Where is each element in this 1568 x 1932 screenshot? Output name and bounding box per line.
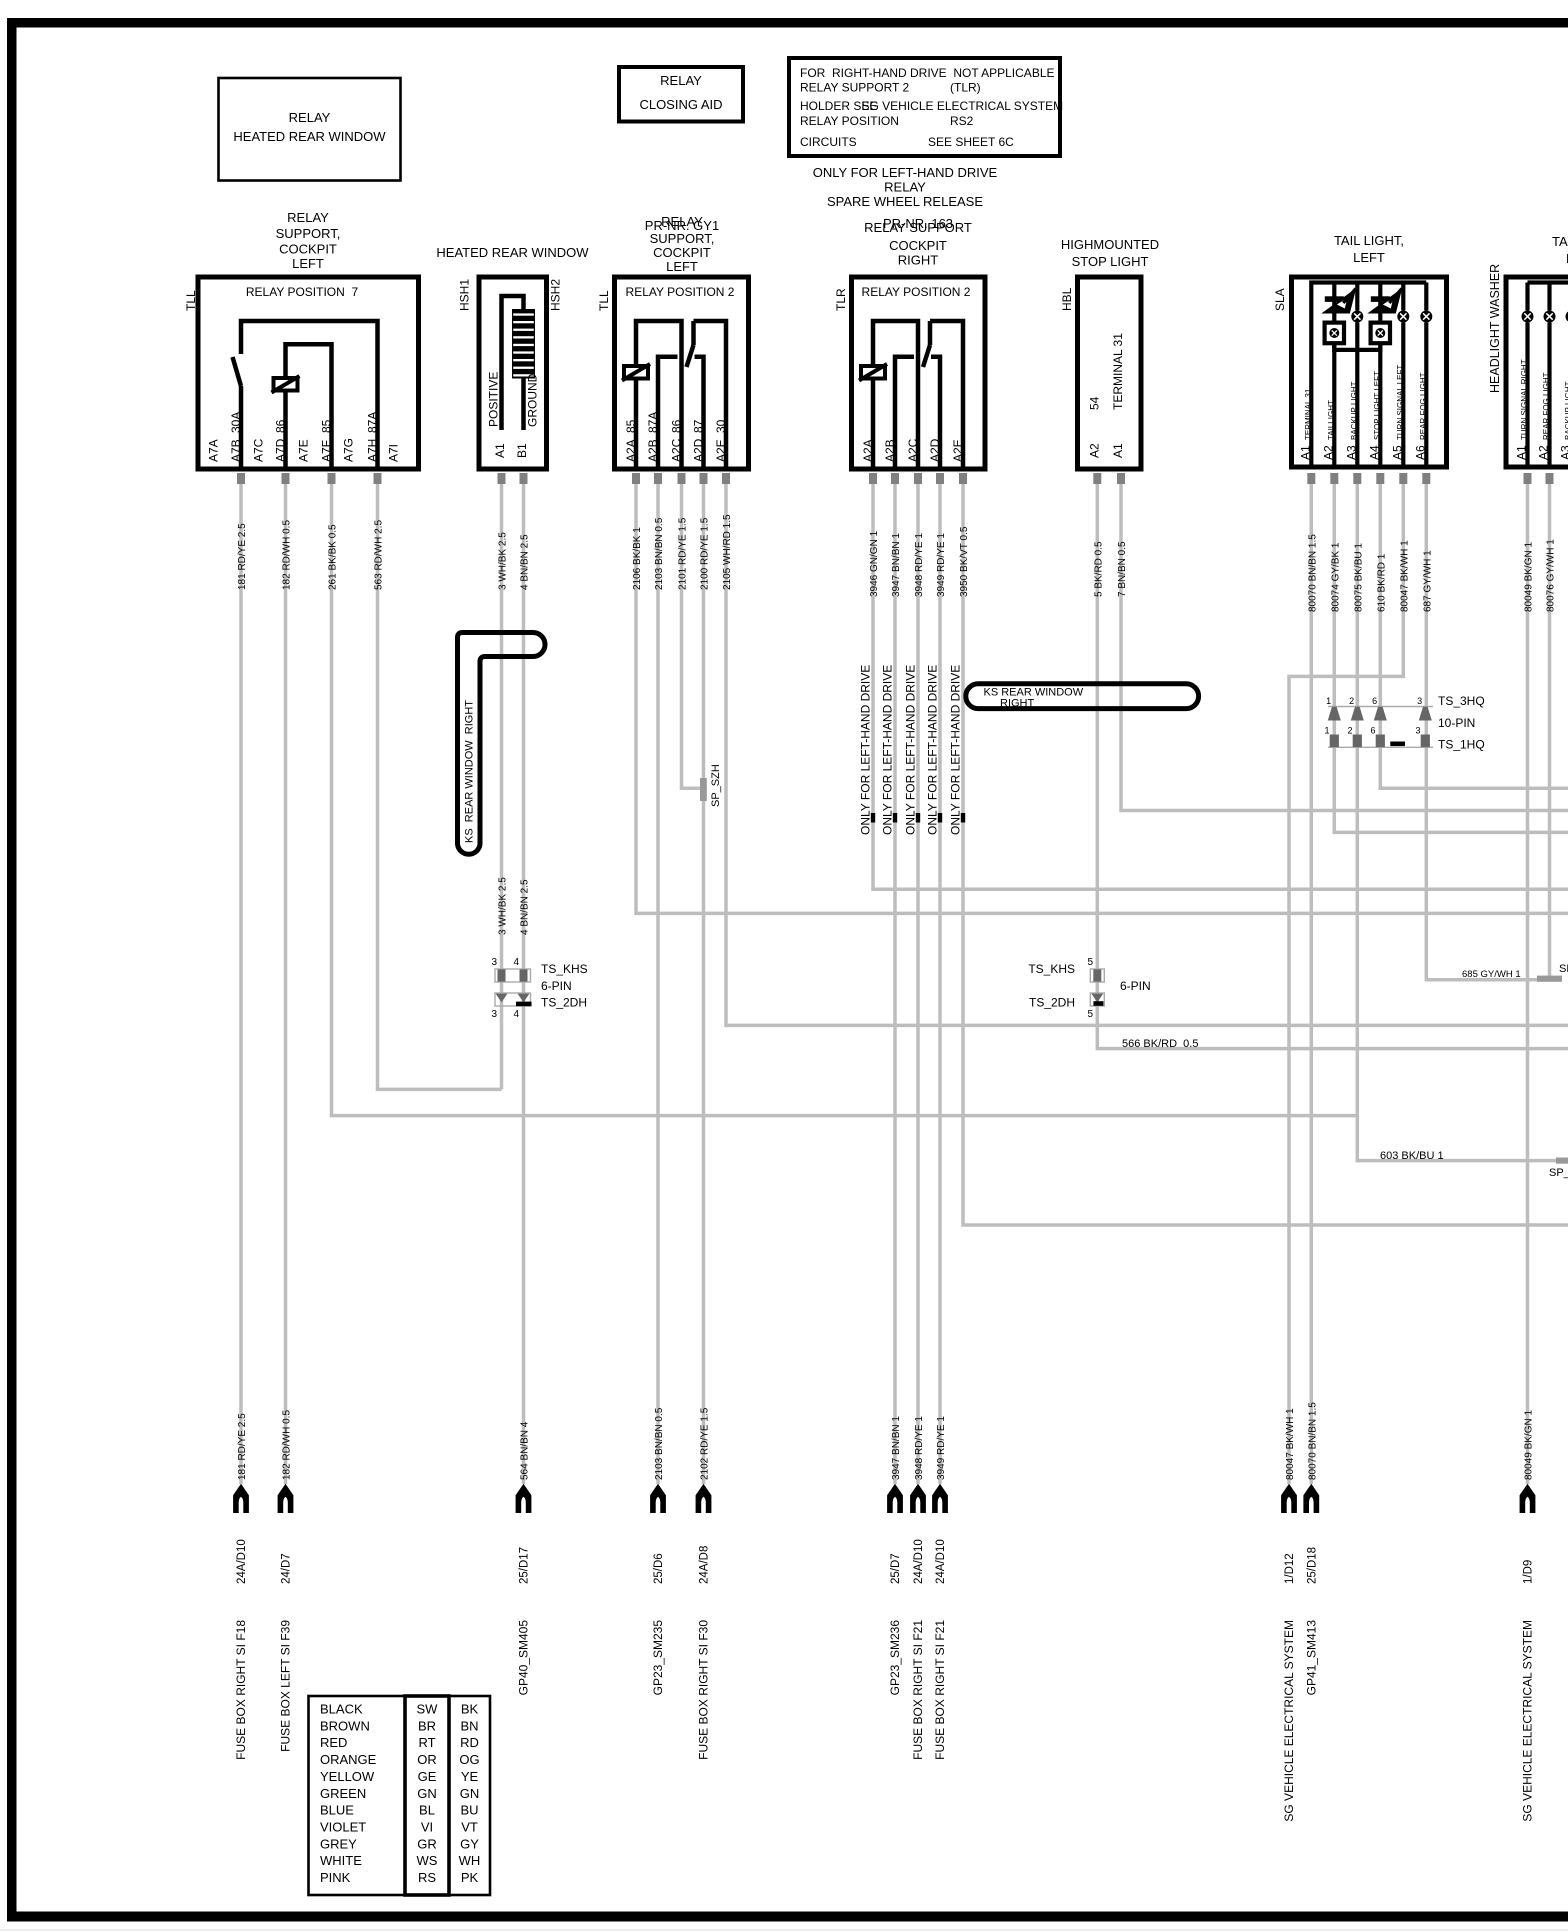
svg-text:687 GY/WH 1: 687 GY/WH 1 xyxy=(1422,550,1433,612)
svg-text:85: 85 xyxy=(320,419,334,433)
component box: relay support cockpit left TLL, RELAY POSITION 7 xyxy=(184,210,419,469)
box: RELAY HEATED REAR WINDOW (top-left annotation) xyxy=(219,78,401,181)
svg-text:1: 1 xyxy=(1324,726,1329,736)
svg-text:80049 BK/GN 1: 80049 BK/GN 1 xyxy=(1524,1410,1535,1480)
svg-text:STOP LIGHT: STOP LIGHT xyxy=(1072,254,1149,269)
svg-text:3949 RD/YE 1: 3949 RD/YE 1 xyxy=(936,533,947,597)
svg-text:564 BN/BN 4: 564 BN/BN 4 xyxy=(520,1421,531,1480)
svg-text:BACKUP LIGHT: BACKUP LIGHT xyxy=(1564,381,1568,440)
note: only for left-hand drive relay spare wheel release xyxy=(813,165,998,209)
svg-text:24A/D10: 24A/D10 xyxy=(913,1539,925,1584)
svg-text:BLUE: BLUE xyxy=(320,1803,354,1818)
svg-text:ONLY FOR LEFT-HAND DRIVE: ONLY FOR LEFT-HAND DRIVE xyxy=(904,665,918,835)
svg-text:LEFT: LEFT xyxy=(666,259,698,274)
svg-text:A2: A2 xyxy=(1088,443,1102,458)
box: RELAY CLOSING AID (top-center annotation) xyxy=(619,67,743,122)
svg-text:BLACK: BLACK xyxy=(320,1702,363,1717)
relay K2 coil: pin A2A(85) coil loop to pin A2C(86) xyxy=(622,321,682,470)
component box: relay support cockpit left TLL, RELAY POSITION 2 xyxy=(597,214,749,469)
heater element R1: pin A1 positive loop, resistor, pin B1 ground xyxy=(502,296,524,430)
wire 80075 BK/BU / 603 BK/BU: SLA A3 down to splice xyxy=(1357,484,1560,1161)
wire 4 BN/BN / 564 BN/BN: HSH B1 through TS connector to GP40 xyxy=(522,484,526,1484)
harness outlet arrow, wire 181 to FUSE BOX RIGHT SI F18 xyxy=(233,1413,249,1760)
svg-text:COCKPIT: COCKPIT xyxy=(279,242,337,257)
svg-text:SP_: SP_ xyxy=(1559,963,1568,975)
svg-text:A7C: A7C xyxy=(252,438,266,462)
svg-text:GY: GY xyxy=(460,1836,479,1851)
svg-text:24/D7: 24/D7 xyxy=(281,1553,293,1584)
svg-text:5: 5 xyxy=(1087,957,1093,968)
box4 pin labels A2A..A2E xyxy=(861,438,965,462)
svg-text:A3: A3 xyxy=(1559,445,1568,460)
svg-text:RELAY: RELAY xyxy=(660,73,702,88)
svg-text:(TLR): (TLR) xyxy=(950,81,981,95)
harness outlet arrow, wire 80049 to SG VEHICLE ELECTRICAL SYSTEM xyxy=(1520,1410,1536,1822)
svg-text:25/D18: 25/D18 xyxy=(1307,1547,1319,1584)
svg-text:30A: 30A xyxy=(229,412,243,433)
svg-text:FUSE BOX RIGHT SI F18: FUSE BOX RIGHT SI F18 xyxy=(234,1620,248,1760)
svg-text:87: 87 xyxy=(692,419,706,433)
svg-text:10-PIN: 10-PIN xyxy=(1438,716,1475,730)
svg-text:CLOSING AID: CLOSING AID xyxy=(639,97,722,112)
wire number labels below component boxes xyxy=(237,514,1557,612)
svg-text:A2C: A2C xyxy=(670,438,684,462)
svg-text:BN: BN xyxy=(460,1718,478,1733)
svg-text:A2A: A2A xyxy=(624,439,638,462)
svg-text:30: 30 xyxy=(714,419,728,433)
svg-text:2101 RD/YE 1.5: 2101 RD/YE 1.5 xyxy=(678,517,689,590)
svg-text:SLA: SLA xyxy=(1273,288,1287,311)
backup light lamp (cut by sheet edge) xyxy=(1566,283,1568,468)
wire 182 RD/WH: box1 A7D to fuse box left xyxy=(284,484,288,1484)
wire 2105 WH/RD: box3 A2E elbow right at y1025 xyxy=(726,484,1568,1025)
rear fog light lamp E6 xyxy=(1420,283,1432,468)
svg-text:24A/D10: 24A/D10 xyxy=(935,1539,947,1584)
svg-text:3 WH/BK 2.5: 3 WH/BK 2.5 xyxy=(498,877,509,935)
svg-text:TS_2DH: TS_2DH xyxy=(541,996,587,1010)
resistor element hatched body xyxy=(512,309,535,379)
svg-text:A7G: A7G xyxy=(342,438,356,462)
connector outline KS REAR WINDOW RIGHT (horizontal stadium) xyxy=(966,684,1199,710)
svg-text:261 BK/BK 0.5: 261 BK/BK 0.5 xyxy=(328,524,339,590)
svg-text:VT: VT xyxy=(461,1819,478,1834)
svg-text:GP41_SM413: GP41_SM413 xyxy=(1305,1620,1319,1696)
harness outlet arrow, wire 564 to GP40_SM405 xyxy=(516,1421,532,1695)
svg-text:A7B: A7B xyxy=(229,439,243,462)
svg-text:VI: VI xyxy=(421,1819,433,1834)
component box: highmounted stop light HBL xyxy=(1060,237,1159,469)
svg-text:2105 WH/RD 1.5: 2105 WH/RD 1.5 xyxy=(722,514,733,590)
svg-text:25/D17: 25/D17 xyxy=(519,1547,531,1584)
svg-text:FOR RIGHT-HAND DRIVE NOT APP: FOR RIGHT-HAND DRIVE NOT APPLICABLE xyxy=(800,66,1055,80)
svg-text:181 RD/YE 2.5: 181 RD/YE 2.5 xyxy=(237,1413,248,1480)
svg-text:A7H: A7H xyxy=(366,439,380,462)
wire 7 BN/BN: HBL A1 elbow right at y810 xyxy=(1121,484,1568,811)
svg-text:A1: A1 xyxy=(493,443,507,458)
svg-text:HBL: HBL xyxy=(1060,287,1074,311)
svg-text:SG VEHICLE ELECTRICAL SYSTEM: SG VEHICLE ELECTRICAL SYSTEM xyxy=(862,99,1064,113)
svg-text:182 RD/WH 0.5: 182 RD/WH 0.5 xyxy=(282,1410,293,1480)
svg-text:A2B: A2B xyxy=(646,439,660,462)
svg-text:A2D: A2D xyxy=(692,438,706,462)
svg-text:24A/D10: 24A/D10 xyxy=(236,1539,248,1584)
svg-text:SW: SW xyxy=(417,1702,439,1717)
wire 3950 BK/VT: box4 A2E elbow right at y1225 xyxy=(963,484,1568,1225)
svg-text:RELAY: RELAY xyxy=(287,210,329,225)
svg-text:VIOLET: VIOLET xyxy=(320,1819,366,1834)
svg-text:ONLY FOR LEFT-HAND DRIVE: ONLY FOR LEFT-HAND DRIVE xyxy=(813,165,998,180)
svg-text:54: 54 xyxy=(1088,396,1102,410)
svg-text:603 BK/BU 1: 603 BK/BU 1 xyxy=(1380,1150,1444,1162)
tail light right pin labels xyxy=(1515,359,1568,460)
svg-text:BR: BR xyxy=(418,1718,436,1733)
svg-text:3947 BN/BN 1: 3947 BN/BN 1 xyxy=(891,533,902,597)
svg-text:2: 2 xyxy=(1347,726,1352,736)
wire 80049 BK/GN: tail light right A1 to SG system xyxy=(1526,484,1530,1484)
splice on wire 685 GY/WH xyxy=(1537,963,1568,982)
svg-text:RD: RD xyxy=(460,1735,479,1750)
component box: tail light left SLA xyxy=(1273,233,1447,467)
relay K3 coil: pin A2A coil loop to pin A2C xyxy=(859,321,918,470)
svg-text:A7F: A7F xyxy=(320,440,334,462)
wire 5 BK/RD / 566 BK/RD: HBL A2 through TS connector elbow right xyxy=(1097,484,1568,1049)
svg-text:LEFT: LEFT xyxy=(292,256,324,271)
svg-text:RELAY SUPPORT: RELAY SUPPORT xyxy=(864,220,972,235)
svg-text:YE: YE xyxy=(461,1769,479,1784)
svg-text:RELAY SUPPORT 2: RELAY SUPPORT 2 xyxy=(800,81,909,95)
tail light right internal bus xyxy=(1528,280,1568,284)
svg-text:2103 BN/BN 0.5: 2103 BN/BN 0.5 xyxy=(654,517,665,590)
svg-text:GROUND: GROUND xyxy=(526,373,540,427)
svg-text:3: 3 xyxy=(491,957,497,968)
svg-text:RELAY: RELAY xyxy=(884,180,926,195)
wire 80074 GY/BK: SLA A2 elbow right at y832 xyxy=(1334,484,1568,832)
svg-text:RS2: RS2 xyxy=(950,114,974,128)
svg-text:TERMINAL 31: TERMINAL 31 xyxy=(1111,333,1125,410)
box: right-hand-drive info table xyxy=(789,58,1063,156)
relay K1 coil: pin A7D(86) coil to pin A7F(85) xyxy=(272,344,332,469)
svg-text:80047 BK/WH 1: 80047 BK/WH 1 xyxy=(1399,540,1410,612)
option dividers and ONLY FOR LEFT-HAND DRIVE notes xyxy=(859,665,966,835)
connector pads at box pins xyxy=(237,473,1554,484)
svg-text:WHITE: WHITE xyxy=(320,1853,362,1868)
svg-text:TLR: TLR xyxy=(834,288,848,311)
svg-text:HSH1: HSH1 xyxy=(458,279,472,311)
wire 80047 BK/WH: SLA A5 elbow left then down to SG system xyxy=(1289,484,1403,1484)
svg-text:SUPPORT,: SUPPORT, xyxy=(276,226,341,241)
wire 2103 BN/BN: box3 A2B to GP23 xyxy=(656,484,660,1484)
wire 2101 RD/YE: box3 A2C to splice SP_SZH xyxy=(682,484,703,788)
svg-text:2106 BK/BK 1: 2106 BK/BK 1 xyxy=(632,527,643,590)
svg-text:ONLY FOR LEFT-HAND DRIVE: ONLY FOR LEFT-HAND DRIVE xyxy=(949,665,963,835)
svg-text:86: 86 xyxy=(670,419,684,433)
svg-text:A2C: A2C xyxy=(906,438,920,462)
svg-text:5 BK/RD 0.5: 5 BK/RD 0.5 xyxy=(1093,541,1104,597)
connector TS_3HQ / TS_1HQ 10-PIN xyxy=(1324,694,1484,752)
svg-text:1/D12: 1/D12 xyxy=(1284,1553,1296,1584)
box1 pin labels A7A..A7I and terminal numbers xyxy=(207,412,401,462)
svg-text:POSITIVE: POSITIVE xyxy=(487,372,501,427)
harness outlet arrow, wire 182 to FUSE BOX LEFT SI F39 xyxy=(278,1410,294,1752)
connector TS_KHS / TS_2DH pin 5 xyxy=(1028,957,1150,1020)
svg-text:24A/D8: 24A/D8 xyxy=(699,1546,711,1584)
wire 181 RD/YE: box1 A7B to fuse box right xyxy=(239,484,243,1484)
svg-text:87A: 87A xyxy=(366,412,380,433)
svg-text:ONLY FOR LEFT-HAND DRIVE: ONLY FOR LEFT-HAND DRIVE xyxy=(859,665,873,835)
svg-text:HEATED REAR WINDOW: HEATED REAR WINDOW xyxy=(436,245,589,260)
svg-text:GP40_SM405: GP40_SM405 xyxy=(517,1620,531,1696)
relay K2 changeover: common A2E(30), blade, contacts 87A(A2B) 87(A2D) xyxy=(658,321,726,470)
wire 2100/2102 RD/YE: box3 A2D through splice to fuse box xyxy=(702,484,706,1484)
svg-text:RELAY POSITION 2: RELAY POSITION 2 xyxy=(626,285,735,299)
svg-text:RS: RS xyxy=(418,1870,436,1885)
turn signal right lamp xyxy=(1522,283,1534,468)
svg-text:80047 BK/WH 1: 80047 BK/WH 1 xyxy=(1285,1408,1296,1480)
component box: tail light right (cut by sheet edge) xyxy=(1506,234,1568,467)
svg-text:OR: OR xyxy=(417,1752,437,1767)
svg-text:A2E: A2E xyxy=(714,439,728,462)
svg-text:PK: PK xyxy=(461,1870,479,1885)
wire 261 BK/BK: box1 A7F elbow right at y1115 xyxy=(332,484,1358,1116)
svg-text:HIGHMOUNTED: HIGHMOUNTED xyxy=(1061,237,1159,252)
svg-text:GR: GR xyxy=(417,1836,437,1851)
svg-text:ORANGE: ORANGE xyxy=(320,1752,377,1767)
relay K3 changeover: common A2E, blade, contacts A2B A2D xyxy=(895,321,963,470)
SLA pin labels A1..A6 with functions xyxy=(1298,365,1428,460)
svg-text:TLL: TLL xyxy=(597,290,611,311)
svg-text:SG VEHICLE ELECTRICAL SYSTEM: SG VEHICLE ELECTRICAL SYSTEM xyxy=(1521,1620,1535,1822)
svg-text:SG VEHICLE ELECTRICAL SYSTEM: SG VEHICLE ELECTRICAL SYSTEM xyxy=(1282,1620,1296,1822)
svg-text:85: 85 xyxy=(624,419,638,433)
svg-text:A1: A1 xyxy=(1298,445,1312,460)
svg-text:A2: A2 xyxy=(1321,445,1335,460)
svg-text:SEE SHEET 6C: SEE SHEET 6C xyxy=(928,135,1014,149)
harness outlet arrow, wire 3949 to FUSE BOX RIGHT SI F21 xyxy=(932,1416,948,1760)
svg-text:TS_KHS: TS_KHS xyxy=(1028,962,1075,976)
svg-text:A7I: A7I xyxy=(387,444,401,462)
svg-text:KS REAR WINDOW RIGHT: KS REAR WINDOW RIGHT xyxy=(464,700,476,843)
svg-text:RELAY: RELAY xyxy=(289,110,331,125)
svg-text:TS_3HQ: TS_3HQ xyxy=(1438,694,1485,708)
svg-text:RELAY POSITION: RELAY POSITION xyxy=(800,114,899,128)
svg-text:25/D7: 25/D7 xyxy=(890,1553,902,1584)
svg-text:A2D: A2D xyxy=(928,438,942,462)
svg-text:BROWN: BROWN xyxy=(320,1718,370,1733)
svg-text:A1: A1 xyxy=(1111,443,1125,458)
svg-text:WS: WS xyxy=(417,1853,438,1868)
svg-text:A2E: A2E xyxy=(951,439,965,462)
svg-text:A2B: A2B xyxy=(883,439,897,462)
wire 610 BK/RD: SLA A4 elbow right at y788 xyxy=(1380,484,1568,788)
SLA internal bus terminal 31 xyxy=(1311,283,1426,468)
svg-text:3: 3 xyxy=(1415,726,1420,736)
wire 3947 BN/BN: box4 A2B to GP23_SM236 xyxy=(893,484,897,1484)
svg-text:SUPPORT,: SUPPORT, xyxy=(650,231,715,246)
svg-text:HEATED REAR WINDOW: HEATED REAR WINDOW xyxy=(233,129,386,144)
svg-text:TS_1HQ: TS_1HQ xyxy=(1438,738,1485,752)
svg-text:GP23_SM236: GP23_SM236 xyxy=(888,1620,902,1696)
svg-text:TERMINAL 31: TERMINAL 31 xyxy=(1304,388,1313,440)
svg-text:TLL: TLL xyxy=(184,290,198,311)
svg-text:GREEN: GREEN xyxy=(320,1786,366,1801)
backup light lamp E3 xyxy=(1351,283,1363,468)
svg-text:GREY: GREY xyxy=(320,1836,357,1851)
svg-text:GN: GN xyxy=(417,1786,437,1801)
svg-text:A2: A2 xyxy=(1537,445,1551,460)
svg-text:FUSE BOX RIGHT SI F21: FUSE BOX RIGHT SI F21 xyxy=(911,1620,925,1760)
svg-text:6: 6 xyxy=(1372,696,1377,706)
svg-text:3: 3 xyxy=(1417,696,1422,706)
svg-text:25/D6: 25/D6 xyxy=(653,1553,665,1584)
svg-text:TAILLIGHT: TAILLIGHT xyxy=(1327,400,1336,440)
harness outlet arrow, wire 2102 to FUSE BOX RIGHT SI F30 xyxy=(696,1407,712,1760)
svg-text:RIGHT: RIGHT xyxy=(1000,698,1035,710)
svg-text:2102 RD/YE 1.5: 2102 RD/YE 1.5 xyxy=(700,1407,711,1480)
svg-text:A7A: A7A xyxy=(207,439,221,462)
wire 3 WH/BK: HSH A1 to TS_KHS pin3 and down to U xyxy=(500,484,504,1089)
wire 3946 GN/GN: box4 A2A elbow right at y889 xyxy=(873,484,1568,889)
svg-text:181 RD/YE 2.5: 181 RD/YE 2.5 xyxy=(237,523,248,590)
svg-text:WH: WH xyxy=(459,1853,481,1868)
harness outlet arrow, wire 3948 to FUSE BOX RIGHT SI F21 xyxy=(910,1416,926,1760)
svg-text:FUSE BOX LEFT SI F39: FUSE BOX LEFT SI F39 xyxy=(279,1620,293,1752)
svg-text:CIRCUITS: CIRCUITS xyxy=(800,135,857,149)
wire 80076 GY/WH: tail light right A2 down to splice xyxy=(1548,484,1552,977)
repeated labels 3 WH/BK and 4 BN/BN above TS_KHS xyxy=(498,877,531,935)
svg-text:7 BN/BN 0.5: 7 BN/BN 0.5 xyxy=(1117,541,1128,597)
svg-text:REAR FOG LIGHT: REAR FOG LIGHT xyxy=(1419,372,1428,440)
svg-text:YELLOW: YELLOW xyxy=(320,1769,375,1784)
svg-text:3946 GN/GN 1: 3946 GN/GN 1 xyxy=(869,530,880,597)
svg-text:FUSE BOX RIGHT SI F21: FUSE BOX RIGHT SI F21 xyxy=(933,1620,947,1760)
svg-text:80074 GY/BK 1: 80074 GY/BK 1 xyxy=(1330,542,1341,612)
wire 687 GY/WH / 685 GY/WH: SLA A6 down, right to splice xyxy=(1426,484,1558,980)
svg-text:610 BK/RD 1: 610 BK/RD 1 xyxy=(1376,553,1387,612)
svg-text:ONLY FOR LEFT-HAND DRIVE: ONLY FOR LEFT-HAND DRIVE xyxy=(926,665,940,835)
svg-text:80070 BN/BN 1.5: 80070 BN/BN 1.5 xyxy=(1307,1402,1318,1480)
relay K1 contact circuit: pin A7B(30A) switch to pin A7H(87A) xyxy=(233,321,378,470)
svg-text:A4: A4 xyxy=(1367,445,1381,460)
svg-text:REAR FOG LIGHT: REAR FOG LIGHT xyxy=(1542,372,1551,440)
svg-text:80076 GY/WH 1: 80076 GY/WH 1 xyxy=(1546,539,1557,612)
svg-text:BACKUP LIGHT: BACKUP LIGHT xyxy=(1350,381,1359,440)
splice SP_SZH on wire 2100 xyxy=(700,764,722,807)
svg-text:BU: BU xyxy=(460,1803,478,1818)
svg-text:A5: A5 xyxy=(1390,445,1404,460)
svg-text:80070 BN/BN 1.5: 80070 BN/BN 1.5 xyxy=(1307,534,1318,612)
svg-text:BK: BK xyxy=(461,1702,479,1717)
svg-text:A6: A6 xyxy=(1413,445,1427,460)
svg-text:COCKPIT: COCKPIT xyxy=(889,238,947,253)
svg-text:563 RD/WH 2.5: 563 RD/WH 2.5 xyxy=(374,520,385,590)
svg-text:566 BK/RD 0.5: 566 BK/RD 0.5 xyxy=(1122,1038,1198,1050)
box3 pin labels A2A..A2E and terminal numbers xyxy=(624,412,728,462)
wire 2106 BK/BK: box3 A2A elbow right at y913 xyxy=(636,484,1568,913)
svg-text:GN: GN xyxy=(460,1786,480,1801)
svg-text:TAIL LIGHT,: TAIL LIGHT, xyxy=(1552,234,1568,249)
svg-text:TURN SIGNAL LEFT: TURN SIGNAL LEFT xyxy=(1396,365,1405,440)
svg-text:4: 4 xyxy=(513,957,519,968)
svg-text:86: 86 xyxy=(274,419,288,433)
svg-text:A3: A3 xyxy=(1344,445,1358,460)
svg-text:A7D: A7D xyxy=(274,438,288,462)
svg-text:B1: B1 xyxy=(515,443,529,458)
svg-text:2: 2 xyxy=(1349,696,1354,706)
svg-text:685 GY/WH 1: 685 GY/WH 1 xyxy=(1462,969,1521,980)
box2 pin labels A1 B1 POSITIVE GROUND xyxy=(487,372,540,458)
connector outline KS REAR WINDOW RIGHT (vertical flag) xyxy=(458,633,546,855)
svg-text:RELAY POSITION 7: RELAY POSITION 7 xyxy=(246,285,359,299)
svg-text:TURN SIGNAL RIGHT: TURN SIGNAL RIGHT xyxy=(1520,359,1529,440)
svg-text:A7E: A7E xyxy=(297,439,311,462)
svg-text:5: 5 xyxy=(1087,1009,1093,1020)
svg-text:RED: RED xyxy=(320,1735,347,1750)
svg-text:STOP LIGHT LEFT: STOP LIGHT LEFT xyxy=(1373,371,1382,440)
wire 3949 RD/YE: box4 A2D to fuse box right xyxy=(938,484,942,1484)
svg-text:6-PIN: 6-PIN xyxy=(1120,979,1151,993)
svg-text:TS_2DH: TS_2DH xyxy=(1029,996,1075,1010)
svg-text:3949 RD/YE 1: 3949 RD/YE 1 xyxy=(936,1416,947,1480)
svg-text:HSH2: HSH2 xyxy=(549,279,563,311)
svg-text:4 BN/BN 2.5: 4 BN/BN 2.5 xyxy=(520,879,531,935)
svg-text:SPARE WHEEL RELEASE: SPARE WHEEL RELEASE xyxy=(827,194,983,209)
svg-text:OG: OG xyxy=(459,1752,479,1767)
svg-text:2100 RD/YE 1.5: 2100 RD/YE 1.5 xyxy=(700,517,711,590)
svg-text:A1: A1 xyxy=(1515,445,1529,460)
component box: relay support cockpit right TLR, RELAY POSITION 2 xyxy=(834,216,985,469)
svg-text:1: 1 xyxy=(1326,696,1331,706)
taillight lamp E2 with indicator glyph xyxy=(1321,283,1356,468)
svg-text:RT: RT xyxy=(418,1735,435,1750)
svg-text:ONLY FOR LEFT-HAND DRIVE: ONLY FOR LEFT-HAND DRIVE xyxy=(881,665,895,835)
svg-text:4 BN/BN 2.5: 4 BN/BN 2.5 xyxy=(520,534,531,590)
svg-text:GE: GE xyxy=(418,1769,437,1784)
splice on wire 603 BK/BU xyxy=(1549,1158,1568,1180)
svg-text:SP_SZH: SP_SZH xyxy=(710,764,722,807)
turn signal left lamp E5 xyxy=(1397,283,1409,468)
connector TS_KHS / TS_2DH pins 3 and 4 xyxy=(491,957,587,1020)
stop light left lamp E4 with indicator glyph xyxy=(1367,283,1402,468)
svg-text:3: 3 xyxy=(491,1009,497,1020)
colour code legend table xyxy=(309,1696,491,1895)
svg-text:182 RD/WH 0.5: 182 RD/WH 0.5 xyxy=(282,520,293,590)
svg-text:80075 BK/BU 1: 80075 BK/BU 1 xyxy=(1353,543,1364,612)
svg-text:LEFT: LEFT xyxy=(1353,250,1385,265)
harness outlet arrow, wire 2103 to GP23_SM235 xyxy=(650,1407,666,1695)
SLA link between lamp pair xyxy=(1334,343,1380,350)
harness outlet arrow, wire 80047 to SG VEHICLE ELECTRICAL SYSTEM xyxy=(1281,1408,1297,1822)
svg-text:TAIL LIGHT,: TAIL LIGHT, xyxy=(1334,233,1404,248)
svg-text:FUSE BOX RIGHT SI F30: FUSE BOX RIGHT SI F30 xyxy=(697,1620,711,1760)
svg-text:BL: BL xyxy=(419,1803,435,1818)
wire 3948 RD/YE: box4 A2C to fuse box right xyxy=(916,484,920,1484)
svg-text:4: 4 xyxy=(513,1009,519,1020)
svg-text:3 WH/BK 2.5: 3 WH/BK 2.5 xyxy=(498,532,509,590)
svg-text:3950 BK/VT 0.5: 3950 BK/VT 0.5 xyxy=(959,526,970,597)
svg-text:6: 6 xyxy=(1370,726,1375,736)
svg-text:80049 BK/GN 1: 80049 BK/GN 1 xyxy=(1524,542,1535,612)
svg-text:HEADLIGHT WASHER: HEADLIGHT WASHER xyxy=(1488,264,1502,393)
svg-text:3948 RD/YE 1: 3948 RD/YE 1 xyxy=(914,533,925,597)
wire 563 RD/WH: box1 A7H down, U across to TS_2DH pin3 xyxy=(378,484,502,1089)
harness outlet arrow, wire 3947 to GP23_SM236 xyxy=(887,1416,903,1696)
harness outlet arrow, wire 80070 to GP41_SM413 xyxy=(1303,1402,1319,1696)
rear fog light lamp xyxy=(1544,283,1556,468)
svg-text:RELAY POSITION 2: RELAY POSITION 2 xyxy=(862,285,971,299)
svg-text:87A: 87A xyxy=(646,412,660,433)
svg-text:TS_KHS: TS_KHS xyxy=(541,962,588,976)
component box: heated rear window element HSH xyxy=(436,245,589,469)
